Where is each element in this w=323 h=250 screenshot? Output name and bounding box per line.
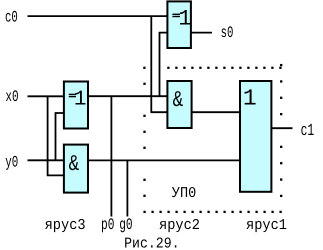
gate U3 left AND box & (generate g0) <box>64 145 88 193</box>
gate U4 middle AND box & <box>167 81 191 128</box>
svg-text:УП0: УП0 <box>172 185 197 202</box>
svg-text:c0: c0 <box>5 9 18 27</box>
wire x0 horizontal <box>28 95 65 97</box>
wire g0 drop terminal <box>126 160 128 216</box>
svg-text:s0: s0 <box>221 24 234 42</box>
svg-text:ярус3: ярус3 <box>45 217 86 234</box>
dotted box УП0 right edge <box>280 64 282 197</box>
gate U5 OR box 1 (carry c1) <box>240 81 271 192</box>
dotted box УП0 left edge <box>143 83 145 197</box>
gate U1 top XOR box =1 (sum s0) <box>167 1 191 48</box>
wire AND output to OR gate <box>192 111 241 113</box>
wire s0 output <box>191 32 212 34</box>
svg-text:&: & <box>69 151 80 177</box>
svg-text:ярус1: ярус1 <box>246 217 287 234</box>
wire x0 drop to left AND gate <box>48 96 64 175</box>
dotted box УП0 top edge <box>143 67 281 69</box>
svg-text:1: 1 <box>243 86 257 112</box>
svg-text:c1: c1 <box>301 122 315 141</box>
wire v1 c0 drop to middle AND gate <box>151 16 168 112</box>
svg-text:y0: y0 <box>5 154 18 172</box>
wire v2 p0 riser to top XOR gate <box>160 33 168 97</box>
dotted box УП0 bottom edge <box>143 211 281 213</box>
svg-text:1: 1 <box>178 7 191 32</box>
svg-text:Рис.29.: Рис.29. <box>124 236 180 250</box>
wire p0 horizontal <box>88 95 168 97</box>
svg-text:&: & <box>173 87 184 113</box>
svg-text:g0: g0 <box>119 216 132 234</box>
gate U2 left XOR box =1 (propagate p0) <box>64 82 88 129</box>
svg-text:1: 1 <box>74 89 87 112</box>
svg-text:x0: x0 <box>5 88 18 106</box>
svg-text:p0: p0 <box>101 216 114 234</box>
wire g0 horizontal <box>88 159 240 161</box>
wire y0 riser to left XOR gate <box>56 113 65 160</box>
wire p0 drop terminal <box>110 96 112 216</box>
wire c0 horizontal <box>28 15 169 17</box>
svg-text:ярус2: ярус2 <box>159 217 200 234</box>
wire y0 horizontal <box>28 159 65 161</box>
wire c1 output <box>271 127 292 129</box>
